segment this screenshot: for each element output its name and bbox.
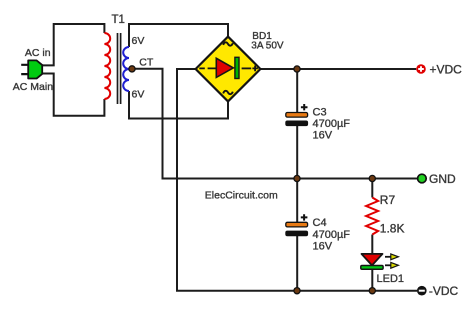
svg-text:6V: 6V xyxy=(132,89,145,101)
svg-text:3A 50V: 3A 50V xyxy=(251,40,284,51)
svg-text:C4: C4 xyxy=(313,217,327,229)
svg-text:4700µF: 4700µF xyxy=(313,229,351,241)
svg-text:GND: GND xyxy=(429,172,456,186)
svg-text:T1: T1 xyxy=(112,14,125,26)
svg-text:AC Main: AC Main xyxy=(13,81,53,93)
svg-text:CT: CT xyxy=(139,57,154,69)
svg-text:16V: 16V xyxy=(313,241,333,253)
svg-text:AC in: AC in xyxy=(25,47,51,59)
svg-text:4700µF: 4700µF xyxy=(313,118,351,130)
svg-text:16V: 16V xyxy=(313,130,333,142)
svg-text:-VDC: -VDC xyxy=(429,284,459,298)
svg-text:R7: R7 xyxy=(380,193,396,207)
svg-text:ElecCircuit.com: ElecCircuit.com xyxy=(205,189,278,201)
svg-text:6V: 6V xyxy=(132,35,145,47)
svg-text:C3: C3 xyxy=(313,107,327,119)
svg-text:+VDC: +VDC xyxy=(430,63,463,77)
svg-text:LED1: LED1 xyxy=(377,273,405,285)
svg-text:1.8K: 1.8K xyxy=(380,222,405,236)
